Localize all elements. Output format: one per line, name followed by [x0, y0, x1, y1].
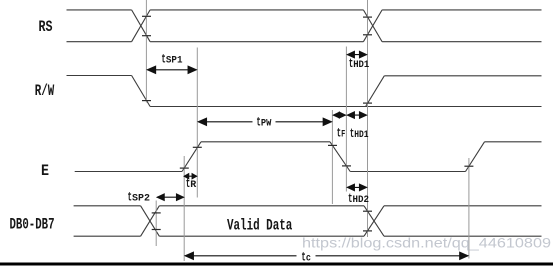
svg-text:https://blog.csdn.net/qq_44610: https://blog.csdn.net/qq_44610809	[302, 235, 551, 251]
dimension line VS at data valid start	[155, 201, 157, 247]
RS crossover X left	[132, 10, 151, 42]
DB crossover X left	[141, 206, 160, 236]
tick marks on E rising slope	[180, 167, 189, 169]
dimension arrow tHD2	[347, 184, 366, 190]
dimension arrow tHD1 top	[347, 51, 366, 57]
svg-text:HD2: HD2	[353, 195, 370, 206]
tick mark on E second rising slope	[464, 165, 473, 167]
svg-text:SP2: SP2	[132, 194, 150, 205]
tick marks on E falling slope	[328, 144, 337, 146]
svg-text:R/W: R/W	[35, 82, 55, 100]
dimension line VR at E rise reference	[183, 156, 185, 261]
signal DB0-DB7 rails	[74, 206, 542, 236]
svg-text:R: R	[190, 180, 196, 191]
tick marks on DB left X	[152, 212, 161, 214]
svg-text:HD1: HD1	[354, 130, 368, 141]
dimension arrow tF	[333, 112, 345, 118]
dimension arrow tSP1	[147, 66, 196, 73]
svg-text:HD1: HD1	[353, 60, 369, 71]
tick mark on R/W falling slope	[142, 100, 151, 102]
tick marks on RS right X	[363, 16, 372, 18]
svg-text:E: E	[41, 162, 49, 180]
dimension line V3 at E falling start	[331, 110, 333, 204]
dimension line V4 at E falling end	[345, 47, 347, 192]
RS crossover X right	[363, 10, 382, 42]
svg-text:F: F	[341, 129, 345, 140]
tick marks on RS left X	[142, 15, 151, 17]
signal RS rails	[67, 10, 542, 42]
dimension line V1 at RS left edge	[145, 0, 147, 103]
dimension line V6 at next E rising edge	[468, 158, 470, 259]
dimension line V5 at hold reference	[367, 0, 369, 237]
dimension arrow tR	[184, 174, 196, 179]
tick mark on R/W rising slope	[363, 102, 372, 104]
signal R/W waveform	[67, 76, 542, 107]
svg-text:Valid Data: Valid Data	[227, 216, 293, 234]
dimension line V2 at E rising edge	[196, 48, 198, 198]
dimension arrow tHD1 middle	[347, 112, 366, 118]
svg-text:SP1: SP1	[166, 56, 183, 67]
svg-text:RS: RS	[39, 18, 53, 36]
signal E waveform	[75, 142, 542, 172]
dimension arrow tPW	[198, 118, 331, 125]
DB crossover X right	[364, 206, 384, 236]
svg-text:PW: PW	[261, 119, 272, 130]
bottom border bar	[0, 263, 553, 266]
svg-text:DB0-DB7: DB0-DB7	[10, 216, 55, 234]
dimension arrow tC	[185, 252, 468, 259]
dimension arrow tSP2	[157, 194, 183, 200]
tick marks on DB right X	[363, 210, 372, 212]
